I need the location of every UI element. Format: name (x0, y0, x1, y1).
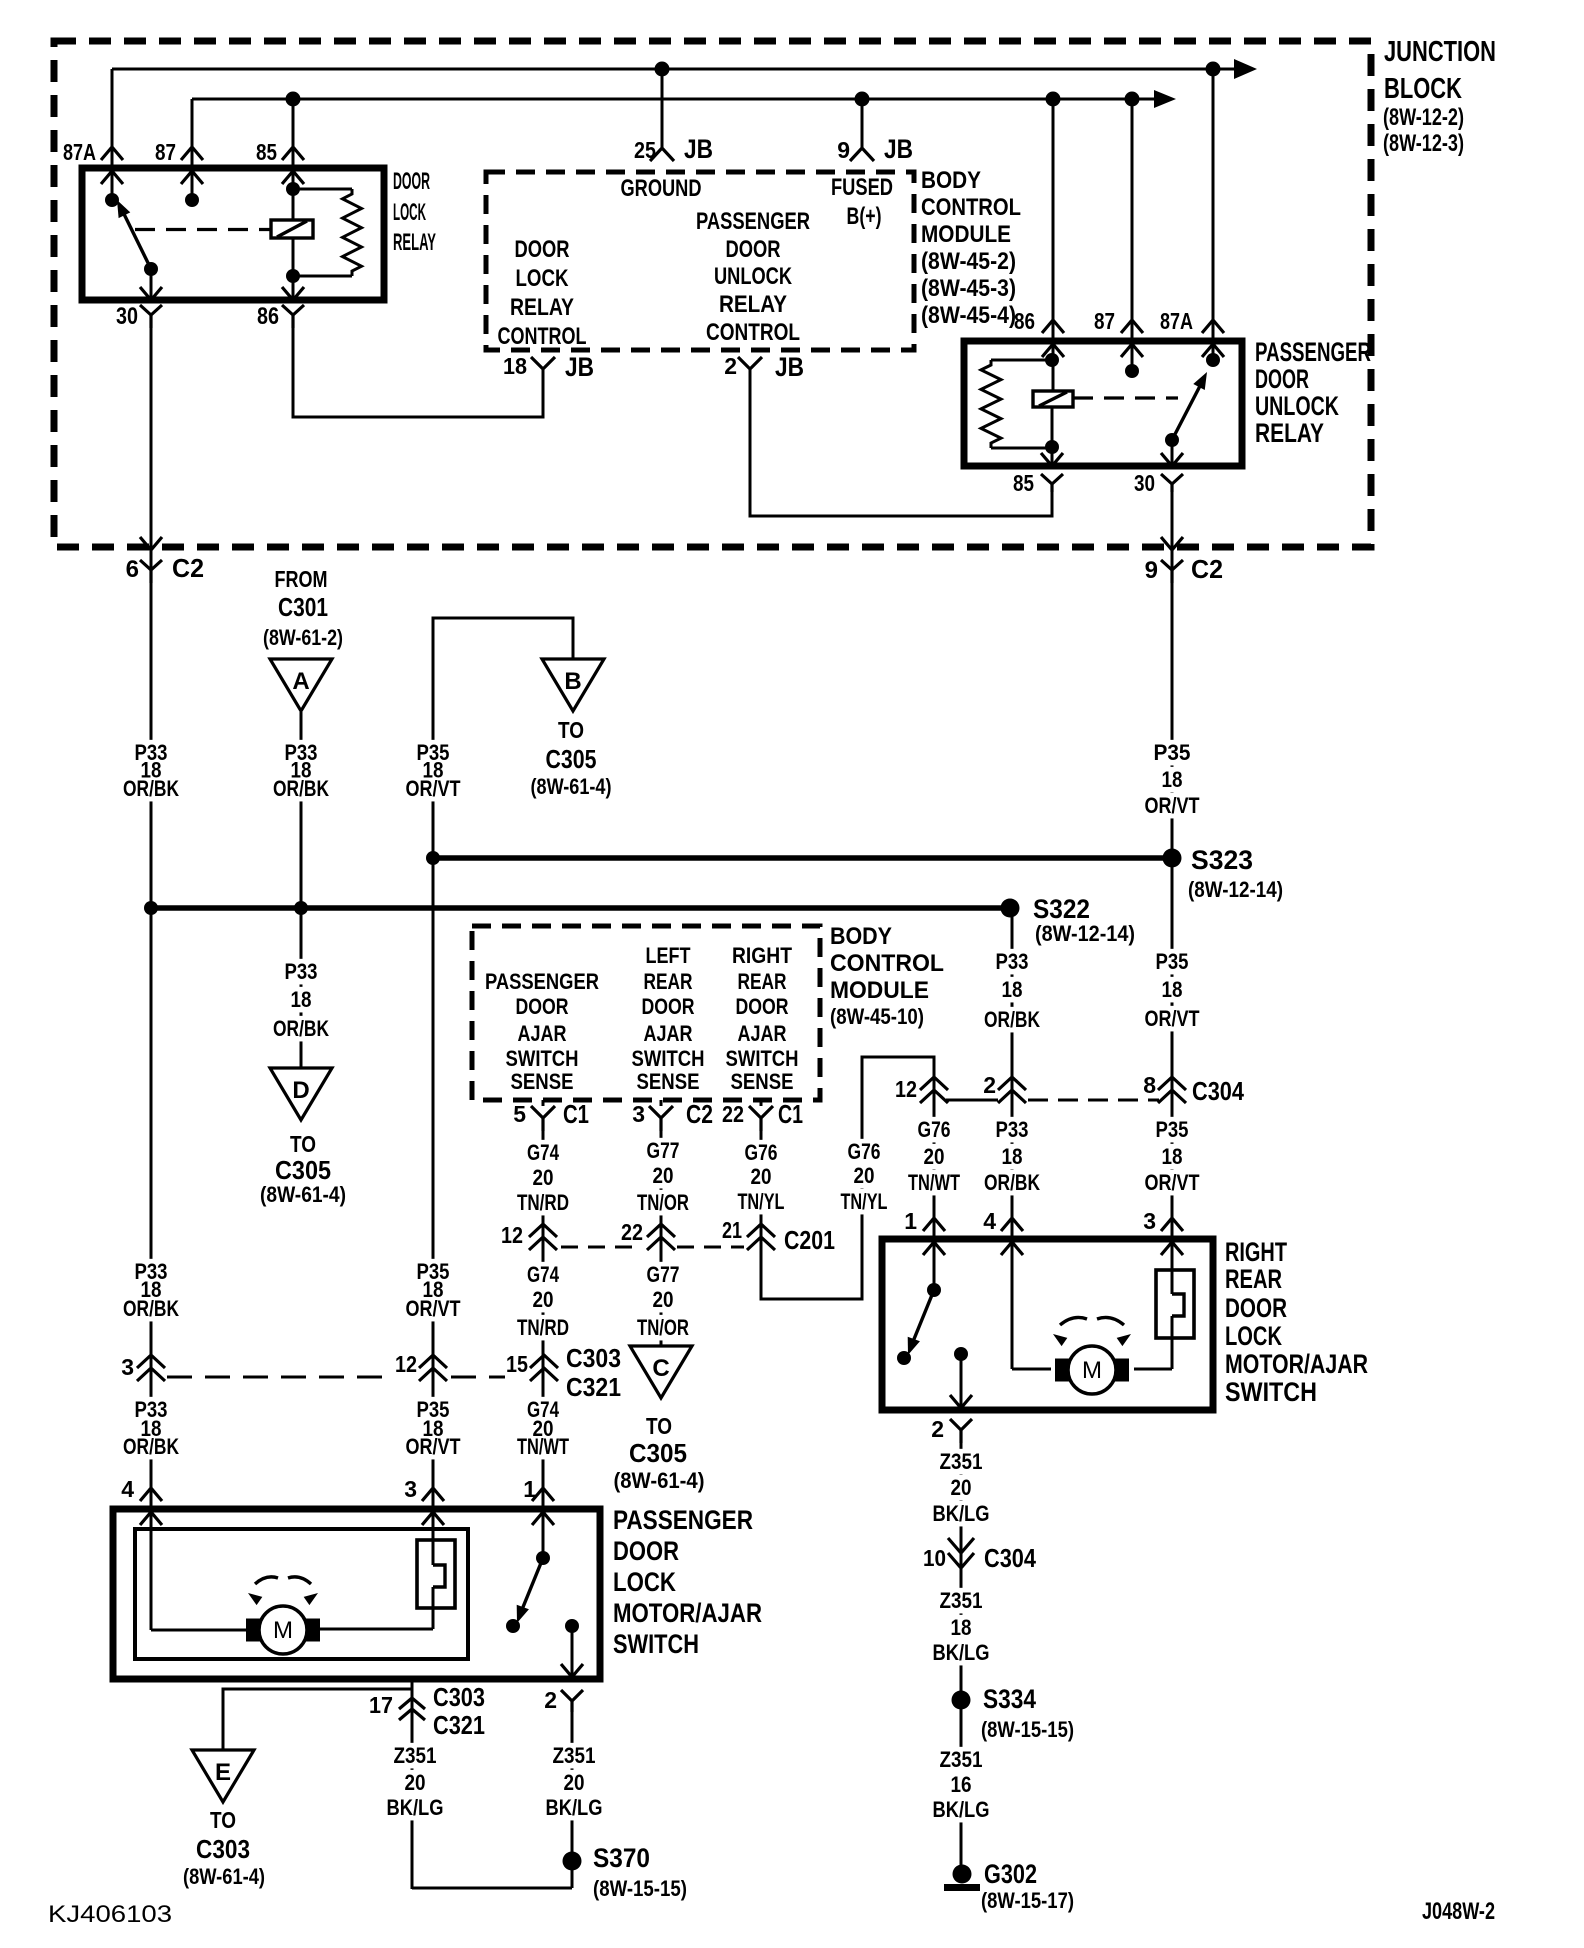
svg-text:18: 18 (1002, 1144, 1023, 1169)
label P35 18 OR/VT (3) (414, 1397, 453, 1423)
svg-text:BK/LG: BK/LG (546, 1795, 603, 1820)
ground G302 (953, 1865, 972, 1884)
label G74 20 TN/WT (524, 1397, 562, 1423)
pin 2 passenger motor (561, 1664, 583, 1677)
wire 87 right drop (1131, 99, 1134, 371)
dashed actuator line door lock relay (135, 228, 271, 231)
module BODY CONTROL MODULE (junction block) box (486, 172, 914, 350)
label P33 18 OR/BK (A) (282, 740, 321, 766)
module BODY CONTROL MODULE (8W-45-10) box (472, 926, 820, 1100)
off-page connector D to C305 (270, 1068, 332, 1120)
svg-text:(8W-45-2): (8W-45-2) (921, 248, 1016, 275)
pin 85 door lock relay (282, 147, 304, 160)
label P33 18 OR/BK (S322 upper) (993, 949, 1032, 975)
svg-text:P33: P33 (996, 949, 1029, 974)
resistor door lock relay (293, 188, 352, 191)
svg-text:18: 18 (1162, 977, 1183, 1002)
svg-text:TN/RD: TN/RD (517, 1190, 569, 1215)
svg-text:B: B (564, 668, 581, 695)
svg-text:OR/VT: OR/VT (406, 776, 461, 801)
svg-text:LOCK: LOCK (516, 265, 570, 292)
svg-text:D: D (292, 1077, 309, 1104)
svg-text:DOOR: DOOR (393, 168, 430, 195)
rotation arrows right rear motor (1060, 1317, 1087, 1325)
svg-text:B(+): B(+) (847, 203, 882, 230)
connector C304 pin 12 (920, 1077, 948, 1090)
pin 87 unlock relay (1121, 320, 1143, 333)
svg-text:(8W-61-4): (8W-61-4) (531, 774, 612, 799)
junction block boundary (dashed) (54, 41, 1371, 547)
svg-text:SWITCH: SWITCH (726, 1046, 799, 1071)
svg-text:AJAR: AJAR (644, 1021, 693, 1046)
junction dot S322 mid (294, 901, 308, 915)
svg-text:PASSENGER: PASSENGER (1255, 337, 1371, 367)
svg-text:9: 9 (837, 137, 850, 163)
junction dot 87 stub (1125, 364, 1139, 378)
svg-text:18: 18 (1162, 767, 1183, 792)
switch arm door lock relay (123, 212, 151, 269)
svg-text:LOCK: LOCK (1225, 1321, 1282, 1351)
svg-text:OR/VT: OR/VT (406, 1434, 461, 1459)
svg-text:M: M (1082, 1357, 1102, 1384)
svg-text:18: 18 (1002, 977, 1023, 1002)
pin 25 JB ground (650, 148, 674, 161)
splice S334 (952, 1691, 971, 1710)
svg-text:P35: P35 (1154, 740, 1191, 765)
svg-text:BODY: BODY (830, 923, 892, 950)
svg-text:S322: S322 (1033, 894, 1090, 924)
svg-text:DOOR: DOOR (1255, 364, 1309, 394)
svg-text:REAR: REAR (738, 969, 787, 994)
wire bus A (87A feed) (112, 68, 1240, 71)
label P35 18 OR/VT (right mid) (1153, 949, 1192, 975)
svg-text:20: 20 (751, 1164, 772, 1189)
svg-text:C304: C304 (984, 1543, 1036, 1573)
resistor unlock relay (991, 359, 1052, 362)
junction dot switch top right rear (927, 1283, 941, 1297)
label G77 20 TN/OR (1) (644, 1138, 683, 1164)
svg-text:PASSENGER: PASSENGER (696, 208, 810, 235)
svg-text:P35: P35 (1156, 949, 1189, 974)
junction dot coil bottom (1045, 440, 1059, 454)
wire 85 left drop (292, 99, 295, 189)
svg-text:(8W-12-14): (8W-12-14) (1035, 921, 1135, 946)
svg-text:9: 9 (1145, 557, 1158, 584)
wire P35 right column to C304 (1171, 858, 1174, 1269)
component PASSENGER DOOR LOCK MOTOR/AJAR SWITCH box (113, 1509, 600, 1679)
pin 30 door lock relay (150, 269, 153, 300)
svg-text:12: 12 (395, 1351, 417, 1377)
svg-text:C303: C303 (566, 1343, 621, 1373)
pin 87A door lock relay (101, 147, 123, 160)
svg-text:(8W-15-17): (8W-15-17) (981, 1888, 1074, 1913)
junction dot pin2 contact right rear (954, 1347, 968, 1361)
motor M right rear (1055, 1359, 1069, 1382)
svg-text:G302: G302 (984, 1859, 1037, 1889)
svg-text:AJAR: AJAR (518, 1021, 567, 1046)
svg-text:CONTROL: CONTROL (921, 194, 1021, 221)
label P33 18 OR/BK (D) (282, 959, 321, 985)
svg-text:C301: C301 (278, 592, 328, 622)
svg-text:18: 18 (291, 987, 312, 1012)
svg-text:TN/RD: TN/RD (517, 1315, 569, 1340)
svg-text:MOTOR/AJAR: MOTOR/AJAR (613, 1598, 762, 1628)
svg-text:CONTROL: CONTROL (498, 323, 587, 350)
dashed actuator line unlock relay (1073, 396, 1178, 399)
label G76 20 TN/YL (1) (742, 1140, 781, 1166)
wire coil bottom to pin 85 (1051, 407, 1054, 466)
svg-text:2: 2 (931, 1416, 944, 1442)
svg-text:MODULE: MODULE (921, 221, 1011, 248)
svg-text:TO: TO (646, 1413, 672, 1439)
svg-text:SENSE: SENSE (637, 1069, 700, 1094)
svg-text:TO: TO (210, 1807, 236, 1833)
svg-text:BODY: BODY (921, 167, 981, 194)
svg-text:4: 4 (121, 1476, 134, 1502)
relay coil door lock relay (271, 220, 313, 238)
switch arm passenger (521, 1558, 543, 1612)
wire P33 from A to splice bus (300, 712, 303, 908)
junction dot pin2 contact passenger (565, 1619, 579, 1633)
svg-text:AJAR: AJAR (738, 1021, 787, 1046)
svg-text:FUSED: FUSED (831, 174, 893, 201)
rotation arrows passenger motor (255, 1577, 278, 1584)
ajar switch contact right rear (1156, 1270, 1194, 1338)
svg-text:C305: C305 (275, 1155, 331, 1185)
svg-text:GROUND: GROUND (621, 175, 702, 202)
svg-text:JUNCTION: JUNCTION (1384, 36, 1496, 68)
wire to connector 17 and triangle E (411, 1679, 414, 1889)
pin 87 door lock relay (181, 147, 203, 160)
svg-text:S334: S334 (983, 1684, 1036, 1714)
svg-text:SENSE: SENSE (511, 1069, 574, 1094)
svg-text:TN/OR: TN/OR (637, 1315, 689, 1340)
svg-text:(8W-45-4): (8W-45-4) (921, 302, 1016, 329)
svg-text:MODULE: MODULE (830, 977, 929, 1004)
svg-text:JB: JB (775, 352, 804, 382)
svg-text:OR/BK: OR/BK (123, 1296, 179, 1321)
junction dot S322 left (144, 901, 158, 915)
svg-text:20: 20 (951, 1475, 972, 1500)
svg-text:OR/VT: OR/VT (406, 1296, 461, 1321)
svg-text:20: 20 (533, 1287, 554, 1312)
svg-text:(8W-61-4): (8W-61-4) (260, 1182, 346, 1207)
splice S370 (563, 1852, 582, 1871)
svg-text:G74: G74 (527, 1262, 560, 1287)
svg-text:C: C (652, 1355, 669, 1382)
pin 2 right rear motor (950, 1395, 972, 1408)
svg-text:20: 20 (653, 1287, 674, 1312)
connector C201 pin 22 (647, 1224, 675, 1237)
svg-text:KJ406103: KJ406103 (48, 1901, 172, 1928)
svg-text:25: 25 (634, 137, 656, 163)
svg-text:BLOCK: BLOCK (1384, 73, 1462, 105)
svg-text:86: 86 (257, 303, 279, 330)
svg-text:G76: G76 (918, 1117, 951, 1142)
connector C303/C321 pin 17 (399, 1698, 425, 1709)
svg-text:21: 21 (722, 1217, 742, 1243)
splice S322 (1001, 899, 1020, 918)
svg-text:OR/VT: OR/VT (1145, 1170, 1200, 1195)
pin 2 JB passenger door unlock relay control (738, 357, 762, 369)
wire ajar contact to motor right rear (1171, 1316, 1174, 1369)
wire P33 left column (150, 583, 153, 1630)
svg-text:OR/BK: OR/BK (123, 1434, 179, 1459)
junction dot bus A x=662 (655, 62, 670, 77)
off-page connector B to C305 (542, 659, 604, 711)
svg-text:3: 3 (121, 1354, 134, 1380)
svg-text:(8W-61-4): (8W-61-4) (183, 1864, 265, 1889)
svg-text:30: 30 (1134, 470, 1155, 496)
svg-text:20: 20 (924, 1144, 945, 1169)
relay DOOR LOCK RELAY box (82, 168, 384, 300)
svg-text:3: 3 (404, 1476, 417, 1502)
svg-text:G76: G76 (848, 1139, 881, 1164)
wire 87A right drop (1212, 69, 1215, 360)
junction dot S323 left (426, 851, 440, 865)
svg-text:DOOR: DOOR (515, 236, 570, 263)
connector C303 pin 12 (419, 1355, 447, 1368)
svg-text:TO: TO (558, 717, 584, 743)
svg-text:PASSENGER: PASSENGER (613, 1505, 753, 1535)
svg-text:Z351: Z351 (940, 1588, 983, 1613)
arrow bus A (1234, 59, 1257, 79)
junction dot 87A pole (1206, 353, 1220, 367)
svg-text:OR/BK: OR/BK (984, 1170, 1040, 1195)
connector C304 line (946, 1099, 998, 1102)
svg-text:UNLOCK: UNLOCK (1255, 391, 1339, 421)
label P35 18 OR/VT (B) (414, 740, 453, 766)
label P33 18 OR/BK (2) (132, 1259, 171, 1285)
svg-text:LOCK: LOCK (613, 1567, 676, 1597)
label P33 18 OR/BK (S322 lower) (993, 1117, 1032, 1143)
svg-text:P35: P35 (1156, 1117, 1189, 1142)
svg-text:87: 87 (155, 139, 176, 165)
svg-text:(8W-45-10): (8W-45-10) (830, 1004, 924, 1029)
junction dot 87A pole (105, 193, 119, 207)
pin 1 passenger motor (532, 1488, 554, 1501)
junction dot switch pivot unlock (1165, 433, 1179, 447)
svg-text:20: 20 (533, 1165, 554, 1190)
svg-text:TO: TO (290, 1131, 316, 1157)
svg-text:6: 6 (126, 556, 139, 583)
label G76 20 TN/WT (915, 1117, 954, 1143)
junction dot coil top (286, 182, 300, 196)
svg-text:RELAY: RELAY (719, 291, 787, 318)
wire pin3 into ajar contact (1171, 1242, 1174, 1294)
svg-text:OR/BK: OR/BK (273, 776, 329, 801)
svg-text:18: 18 (1162, 1144, 1183, 1169)
svg-text:2: 2 (544, 1687, 557, 1713)
pin 30 unlock relay (1171, 440, 1174, 466)
svg-text:RIGHT: RIGHT (732, 943, 792, 968)
svg-text:UNLOCK: UNLOCK (714, 263, 793, 290)
svg-text:REAR: REAR (644, 969, 693, 994)
junction dot switch pivot (144, 262, 158, 276)
svg-text:18: 18 (951, 1615, 972, 1640)
svg-text:20: 20 (405, 1770, 426, 1795)
svg-text:12: 12 (895, 1076, 917, 1102)
svg-text:J048W-2: J048W-2 (1422, 1898, 1495, 1925)
pin 86 unlock relay (1042, 320, 1064, 333)
svg-text:85: 85 (1013, 470, 1034, 496)
label Z351 20 BK/LG (pin2) (550, 1743, 599, 1769)
svg-text:(8W-12-3): (8W-12-3) (1383, 130, 1464, 157)
svg-text:FROM: FROM (275, 566, 328, 592)
label G74 20 TN/RD (1) (524, 1140, 562, 1166)
svg-text:87A: 87A (63, 139, 96, 165)
wire 87A left drop (111, 69, 114, 200)
svg-text:C201: C201 (784, 1225, 835, 1255)
svg-text:REAR: REAR (1225, 1264, 1282, 1294)
svg-text:TN/OR: TN/OR (637, 1190, 689, 1215)
wire P33 S322 to right rear motor (1011, 908, 1014, 1369)
svg-text:(8W-12-2): (8W-12-2) (1383, 104, 1464, 131)
svg-text:TN/WT: TN/WT (517, 1434, 569, 1459)
pin 4 right rear motor (1001, 1218, 1023, 1231)
svg-text:17: 17 (369, 1692, 393, 1718)
svg-text:20: 20 (564, 1770, 585, 1795)
svg-text:A: A (292, 668, 309, 695)
splice bus S322 (151, 905, 1010, 911)
connector C303 pin 15 (530, 1355, 558, 1368)
svg-text:C321: C321 (566, 1372, 621, 1402)
svg-text:G77: G77 (647, 1138, 680, 1163)
svg-text:8: 8 (1143, 1072, 1156, 1098)
junction dot 86 top (1045, 353, 1059, 367)
svg-text:BK/LG: BK/LG (933, 1640, 990, 1665)
svg-text:C303: C303 (196, 1834, 250, 1864)
svg-text:BK/LG: BK/LG (387, 1795, 444, 1820)
svg-text:SENSE: SENSE (731, 1069, 794, 1094)
connector C303 pin 3 (137, 1355, 165, 1368)
svg-text:RELAY: RELAY (1255, 418, 1324, 448)
label Z351 20 BK/LG (rr) (937, 1449, 986, 1475)
label G74 20 TN/RD (2) (524, 1262, 562, 1288)
svg-text:E: E (215, 1759, 231, 1786)
connector C303/C321 line (167, 1376, 391, 1379)
connector C304 pin 8 (1158, 1077, 1186, 1090)
wire P35 right column upper (1171, 583, 1174, 858)
svg-text:S323: S323 (1191, 845, 1253, 875)
ajar switch contact passenger (417, 1540, 455, 1608)
svg-text:TN/YL: TN/YL (738, 1189, 785, 1214)
svg-text:2: 2 (983, 1072, 996, 1098)
svg-text:JB: JB (565, 352, 594, 382)
junction dot bus B x=1132 (1125, 92, 1140, 107)
svg-text:DOOR: DOOR (642, 994, 695, 1019)
connector 6 C2 (150, 325, 153, 583)
wire G76 route (761, 1057, 934, 1299)
svg-text:OR/VT: OR/VT (1145, 1006, 1200, 1031)
svg-text:(8W-15-15): (8W-15-15) (593, 1876, 687, 1901)
junction dot bus B x=293 (286, 92, 301, 107)
pin 22 C1 (760, 1100, 763, 1106)
svg-text:RIGHT: RIGHT (1225, 1237, 1287, 1267)
svg-text:P33: P33 (285, 959, 318, 984)
connector C201 pin 12 (529, 1224, 557, 1237)
svg-text:C1: C1 (778, 1099, 803, 1129)
svg-text:TN/YL: TN/YL (841, 1189, 888, 1214)
svg-text:MOTOR/AJAR: MOTOR/AJAR (1225, 1349, 1368, 1379)
relay coil unlock relay (1033, 391, 1073, 407)
label Z351 18 BK/LG (937, 1588, 986, 1614)
junction dot bus B x=1053 (1046, 92, 1061, 107)
svg-text:M: M (273, 1617, 293, 1644)
svg-text:LEFT: LEFT (646, 943, 691, 968)
junction dot switch contact passenger (506, 1619, 520, 1633)
svg-text:3: 3 (632, 1101, 645, 1127)
svg-text:1: 1 (904, 1208, 917, 1234)
svg-text:OR/VT: OR/VT (1145, 793, 1200, 818)
wire 9 JB drop (861, 99, 864, 148)
arrow bus B (1154, 90, 1176, 108)
svg-text:G74: G74 (527, 1140, 560, 1165)
relay PASSENGER DOOR UNLOCK RELAY box (964, 341, 1242, 466)
svg-text:P33: P33 (996, 1117, 1029, 1142)
wire Z351 pin 2 passenger to S370 (571, 1712, 574, 1888)
label G77 20 TN/OR (2) (644, 1262, 683, 1288)
svg-text:Z351: Z351 (940, 1747, 983, 1772)
svg-text:OR/BK: OR/BK (984, 1007, 1040, 1032)
wire coil connections (292, 189, 295, 220)
off-page connector E to C303 (192, 1750, 254, 1802)
svg-text:(8W-45-3): (8W-45-3) (921, 275, 1016, 302)
svg-text:SWITCH: SWITCH (632, 1046, 705, 1071)
svg-text:20: 20 (653, 1163, 674, 1188)
pin 85 unlock relay (1041, 453, 1063, 466)
label P33 18 OR/BK (1) (132, 740, 171, 766)
wire 18 JB to relay pin 86 (293, 325, 543, 417)
svg-text:85: 85 (256, 139, 277, 165)
label P35 18 OR/VT (2) (414, 1259, 453, 1285)
connector C304 pin 2 (998, 1077, 1026, 1090)
svg-text:JB: JB (684, 134, 713, 164)
svg-text:(8W-61-4): (8W-61-4) (614, 1468, 705, 1493)
svg-text:5: 5 (513, 1101, 526, 1127)
wire 25 JB drop (661, 69, 664, 148)
svg-text:30: 30 (116, 303, 138, 330)
svg-text:SWITCH: SWITCH (1225, 1377, 1317, 1407)
svg-text:C305: C305 (629, 1438, 687, 1468)
connector C201 line (561, 1246, 640, 1249)
svg-text:1: 1 (523, 1476, 536, 1502)
svg-text:12: 12 (501, 1222, 523, 1248)
label P35 18 OR/VT (right upper) (1151, 740, 1194, 766)
svg-text:C1: C1 (563, 1099, 589, 1129)
svg-text:16: 16 (951, 1772, 972, 1797)
svg-text:15: 15 (506, 1351, 528, 1377)
wire pin 30 unlock relay down to C2 (1171, 492, 1174, 583)
off-page connector C to C305 (630, 1346, 692, 1398)
svg-text:20: 20 (854, 1163, 875, 1188)
junction dot bus B x=862 (855, 92, 870, 107)
svg-text:RELAY: RELAY (393, 229, 436, 256)
svg-text:86: 86 (1014, 308, 1035, 334)
svg-text:C304: C304 (1192, 1076, 1244, 1106)
svg-text:DOOR: DOOR (726, 236, 781, 263)
svg-text:S370: S370 (593, 1843, 650, 1873)
svg-text:87A: 87A (1160, 308, 1193, 334)
svg-text:C305: C305 (546, 744, 597, 774)
svg-text:OR/BK: OR/BK (273, 1016, 329, 1041)
svg-text:22: 22 (621, 1219, 643, 1245)
svg-text:PASSENGER: PASSENGER (485, 969, 599, 994)
pin 3 passenger motor (422, 1488, 444, 1501)
svg-text:TN/WT: TN/WT (908, 1170, 960, 1195)
svg-text:87: 87 (1094, 308, 1115, 334)
pin 86 door lock relay (292, 276, 295, 300)
